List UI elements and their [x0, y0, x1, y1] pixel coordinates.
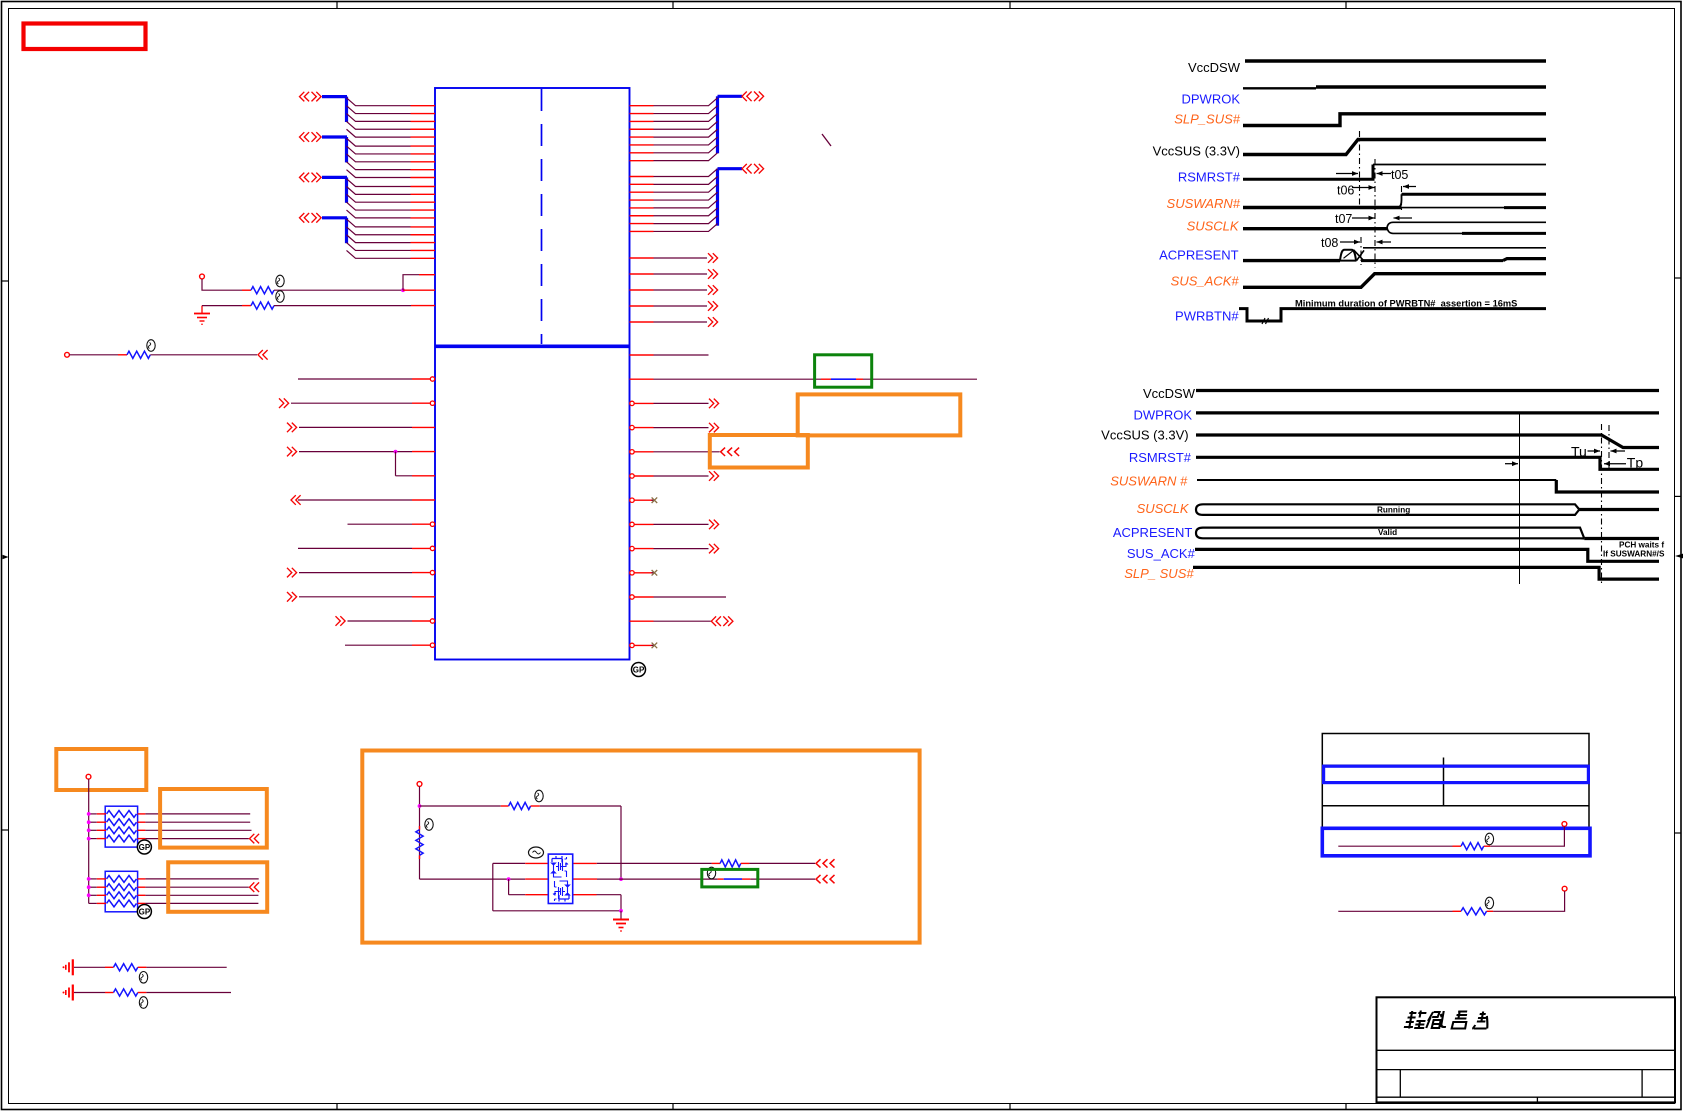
off-page connector bus group L4 [300, 213, 348, 243]
resistor R7 (left vertical) [416, 826, 423, 859]
resistor R5 refdes [139, 997, 147, 1009]
wire bundle into U1 left, group L1 [347, 98, 436, 137]
bottom connecting wire [493, 910, 621, 912]
wire bundle into U1 left, group L3 [347, 179, 436, 218]
svg-text:SUSCLK: SUSCLK [1187, 219, 1240, 234]
off-page connector bus group R2 [718, 164, 764, 226]
svg-text:DWPROK: DWPROK [1134, 408, 1193, 423]
wire U1 lower-right pin 4 [630, 423, 719, 433]
resistor R3 with wire to off-page left [69, 350, 267, 360]
resistor R6 refdes [535, 790, 543, 802]
wire U1 lower-right pin 1 [630, 354, 709, 356]
title block [1377, 997, 1676, 1102]
ground [194, 306, 210, 325]
wire U1 lower-right pin 9 [630, 544, 719, 554]
svg-text:Minimum duration of PWRBTN# a: Minimum duration of PWRBTN# assertion = … [1295, 299, 1517, 309]
off-page connector bus group R1 [718, 92, 764, 154]
resistor R8 (row A) [712, 859, 835, 867]
wire row A [493, 863, 712, 910]
power rail wire [88, 779, 90, 903]
wire U1 lower-left pin 7 [348, 522, 435, 526]
node junction at R1 output [401, 288, 405, 292]
RP1 GP label [137, 840, 151, 854]
wire U1 upper-right single 5 [630, 317, 718, 327]
svg-text:SLP_SUS#: SLP_SUS# [1174, 112, 1241, 127]
note box (red revision box) [24, 24, 146, 50]
resistor R2 refdes [276, 291, 284, 303]
branch wire to row C [508, 879, 510, 895]
wire bundle into U1 left, group L2 [347, 138, 436, 177]
revision table [1322, 734, 1589, 829]
svg-text:GP: GP [633, 666, 645, 675]
wire U1 lower-right pin 12 [630, 616, 733, 626]
annotation box (orange) A1 [798, 394, 961, 435]
wire row B [420, 875, 835, 883]
wire U1 upper-right single 3 [630, 285, 718, 295]
svg-text:t05: t05 [1391, 168, 1408, 182]
ground [72, 985, 74, 1001]
company logotype (CJK strokes) [1404, 1011, 1491, 1029]
svg-text:t08: t08 [1321, 236, 1338, 250]
junction at ground node [619, 909, 623, 913]
resistor R3 refdes [147, 340, 155, 352]
annotation box (orange) B1 [56, 749, 146, 790]
svg-text:ACPRESENT: ACPRESENT [1113, 525, 1193, 540]
stray wire fragment [822, 134, 831, 146]
wire U1 lower-left pin 1 [298, 377, 435, 381]
svg-text:Tp: Tp [1627, 455, 1644, 471]
resistor R2 [202, 302, 435, 309]
off-page connector bus group L3 [300, 173, 348, 203]
resistor R5 to ground [74, 989, 231, 996]
highlight box (green) on net [702, 869, 758, 887]
wire U1 lower-right pin 10 [630, 570, 657, 576]
ground [613, 911, 629, 931]
resistor R9 [1338, 826, 1564, 849]
RP2 GP label [137, 905, 151, 919]
svg-text:DPWROK: DPWROK [1182, 92, 1241, 107]
wire U1 lower-left pin 9 [287, 568, 435, 578]
svg-text:VccDSW: VccDSW [1188, 60, 1241, 75]
annotation box (orange) B3 [168, 862, 267, 912]
wire U1 lower-left pin 5 [396, 475, 436, 477]
wire U1 lower-left pin 4 [287, 447, 435, 457]
wire U1 lower-right pin 8 [630, 520, 719, 530]
wire U1 lower-right pin 7 [630, 497, 657, 503]
power wire down [419, 786, 421, 879]
annotation box (orange) B2 [160, 789, 267, 848]
wire U1 lower-right pin 6 [630, 471, 719, 481]
highlight box (green) on SLP_SUS# net [815, 355, 872, 387]
wire U1 lower-right pin 2 [630, 378, 978, 380]
power pin P1 [200, 274, 205, 279]
svg-text:SUSCLK: SUSCLK [1137, 501, 1190, 516]
svg-text:Running: Running [1377, 506, 1410, 515]
svg-text:VccSUS (3.3V): VccSUS (3.3V) [1101, 428, 1188, 443]
svg-text:t06: t06 [1337, 184, 1354, 198]
RP1 output wires [145, 814, 259, 844]
resistor R10 [1338, 891, 1564, 915]
svg-text:SUS_ACK#: SUS_ACK# [1127, 546, 1196, 561]
svg-text:Tu: Tu [1571, 444, 1587, 460]
junction right rail [619, 877, 623, 881]
resistor R1 refdes [276, 275, 284, 287]
wire U1 lower-left pin 2 [279, 398, 435, 408]
highlighted box (blue) with resistor [1322, 828, 1590, 856]
timing diagram 2 [1101, 386, 1665, 585]
off-page connector bus group L1 [300, 92, 348, 122]
wire row C [509, 895, 621, 911]
power pin P3 [86, 774, 91, 779]
transistor Q1 (dual MOSFET) symbol [548, 854, 572, 903]
svg-text:SUSWARN#: SUSWARN# [1167, 196, 1241, 211]
power pin P2 [65, 352, 70, 357]
wire U1 upper-right single 4 [630, 301, 718, 311]
resistor pack RP1 [89, 806, 146, 847]
wire U1 lower-left pin 3 [287, 423, 435, 433]
wire U1 upper-right single 1 [630, 253, 718, 263]
resistor R1 [242, 287, 403, 294]
wire R1 to U1 pin (two branches) [403, 275, 435, 291]
wire bundle out of U1 right, group R1 [630, 98, 718, 161]
wire U1 upper-right single 2 [630, 269, 718, 279]
annotation box (orange) A2 [710, 435, 808, 468]
wire U1 lower-right pin 5 [630, 448, 739, 456]
svg-text:PCH waits f: PCH waits f [1619, 541, 1664, 550]
svg-text:RSMRST#: RSMRST# [1129, 450, 1192, 465]
timing diagram 1 [1153, 60, 1546, 324]
RP2 junction dots [87, 877, 91, 897]
resistor R8 refdes [707, 867, 715, 879]
junction at P4 rail [418, 804, 422, 808]
svg-text:GP: GP [139, 843, 151, 852]
power pin P6 [1562, 886, 1567, 891]
IC U1 (PCH) body [435, 88, 630, 660]
wire right rail down [620, 806, 622, 879]
resistor R7 refdes [425, 819, 433, 831]
wire bundle into U1 left, group L4 [347, 219, 436, 258]
junction row B branch [507, 877, 511, 881]
RP2 output wires [145, 879, 259, 904]
wire U1 lower-left pin 10 [287, 592, 435, 602]
wire U1 lower-left pin 11 [336, 616, 435, 626]
svg-text:t07: t07 [1335, 212, 1352, 226]
wire U1 lower-left pin 8 [298, 546, 435, 550]
wire U1 lower-right pin 13 [630, 643, 657, 649]
wire U1 lower-left pin 12 [345, 643, 435, 647]
svg-text:SUSWARN #: SUSWARN # [1110, 474, 1188, 489]
off-page connector bus group L2 [300, 132, 348, 162]
resistor R4 refdes [139, 972, 147, 984]
ground [72, 959, 74, 975]
resistor R6 (top) [420, 802, 622, 809]
wire bundle out of U1 right, group R2 [630, 169, 718, 232]
annotation box (orange) C1 [362, 751, 919, 943]
svg-text:VccSUS (3.3V): VccSUS (3.3V) [1153, 144, 1240, 159]
svg-text:SUS_ACK#: SUS_ACK# [1171, 274, 1240, 289]
svg-text:Valid: Valid [1378, 528, 1397, 537]
wire from P1 [202, 279, 242, 290]
resistor R9 refdes [1485, 833, 1493, 845]
svg-text:If SUSWARN#/S: If SUSWARN#/S [1603, 550, 1665, 559]
power pin P4 [417, 782, 422, 787]
resistor R4 to ground [74, 964, 227, 971]
transistor Q1 refdes [529, 847, 544, 858]
IC U1 GP attribute label [632, 663, 646, 677]
svg-text:RSMRST#: RSMRST# [1178, 170, 1241, 185]
svg-text:VccDSW: VccDSW [1143, 386, 1196, 401]
junction + branch wire on pin 4 [394, 450, 398, 476]
svg-text:ACPRESENT: ACPRESENT [1159, 248, 1239, 263]
wire U1 lower-right pin 3 [630, 399, 719, 409]
power pin P5 [1562, 822, 1567, 827]
highlighted table row (blue) [1324, 766, 1589, 782]
svg-text:GP: GP [139, 908, 151, 917]
wire U1 lower-right pin 11 [630, 595, 726, 599]
svg-text:PWRBTN#: PWRBTN# [1175, 309, 1239, 324]
wire U1 lower-left pin 6 [291, 495, 435, 505]
resistor pack RP2 [89, 871, 146, 912]
svg-text:SLP_ SUS#: SLP_ SUS# [1124, 566, 1194, 581]
resistor R10 refdes [1485, 897, 1493, 909]
RP1 junction dots [87, 812, 91, 840]
